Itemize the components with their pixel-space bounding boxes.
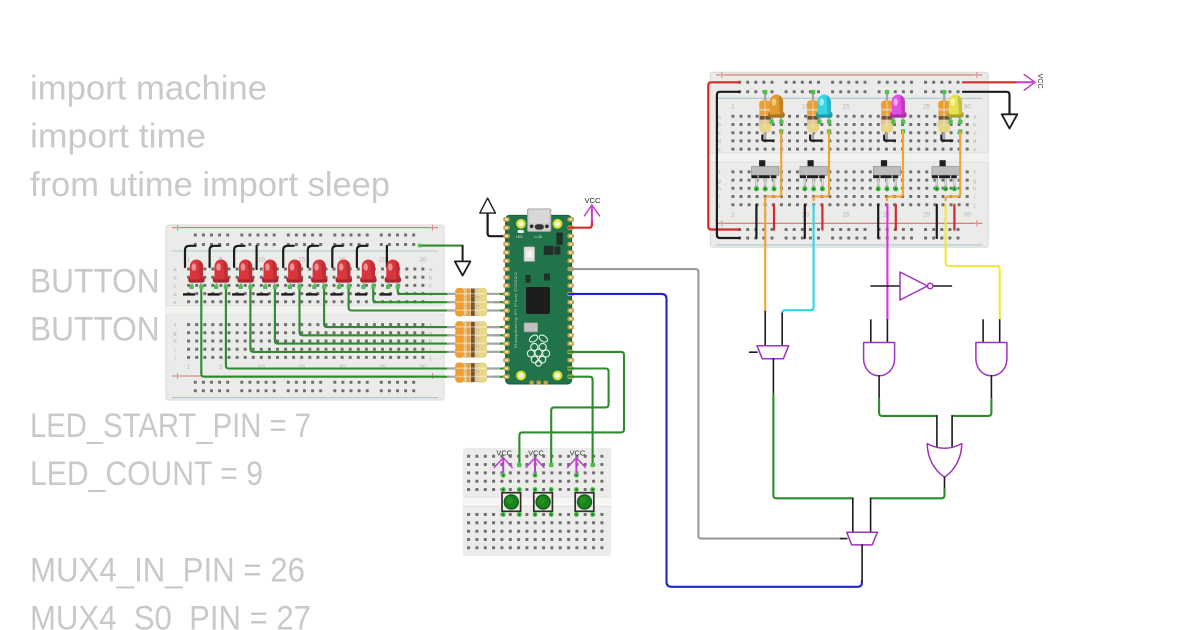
svg-text:c: c	[718, 131, 721, 137]
svg-text:b: b	[718, 123, 721, 129]
svg-text:u-48: u-48	[535, 235, 542, 239]
svg-text:BUTTON: BUTTON	[30, 262, 160, 300]
svg-text:MUX4_S0_PIN = 27: MUX4_S0_PIN = 27	[30, 600, 311, 630]
svg-text:g: g	[973, 178, 976, 184]
svg-text:i: i	[174, 347, 175, 353]
svg-text:10: 10	[258, 256, 266, 263]
svg-text:b: b	[173, 275, 176, 281]
svg-text:j: j	[173, 356, 175, 362]
svg-text:j: j	[973, 203, 975, 209]
svg-text:VCC: VCC	[584, 196, 601, 205]
svg-text:30: 30	[964, 104, 972, 111]
svg-text:h: h	[173, 339, 176, 345]
svg-text:BUTTON: BUTTON	[30, 311, 160, 349]
svg-text:VCC: VCC	[496, 449, 512, 458]
svg-text:d: d	[718, 139, 721, 145]
svg-text:c: c	[429, 284, 432, 290]
svg-text:import machine: import machine	[30, 70, 267, 108]
svg-text:g: g	[718, 178, 721, 184]
svg-text:import time: import time	[30, 118, 206, 156]
svg-text:5: 5	[219, 364, 223, 371]
svg-text:15: 15	[842, 211, 850, 218]
svg-text:i: i	[974, 195, 975, 201]
svg-text:1: 1	[187, 256, 191, 263]
svg-text:i: i	[719, 195, 720, 201]
svg-text:30: 30	[419, 256, 427, 263]
svg-text:Raspberry Pi Pico ©2022: Raspberry Pi Pico ©2022	[513, 271, 518, 348]
svg-text:1: 1	[187, 364, 191, 371]
svg-text:j: j	[429, 356, 431, 362]
svg-text:e: e	[718, 147, 721, 153]
svg-text:LED_COUNT = 9: LED_COUNT = 9	[30, 455, 263, 493]
svg-text:25: 25	[379, 256, 387, 263]
svg-text:25: 25	[923, 211, 931, 218]
svg-text:b: b	[973, 123, 976, 129]
svg-text:e: e	[973, 147, 976, 153]
svg-text:30: 30	[964, 211, 972, 218]
svg-text:VCC: VCC	[528, 449, 544, 458]
svg-text:1: 1	[731, 104, 735, 111]
svg-text:LED: LED	[516, 235, 523, 239]
svg-text:VCC: VCC	[570, 449, 586, 458]
svg-text:b: b	[429, 275, 432, 281]
svg-text:d: d	[173, 292, 176, 298]
svg-text:LED_START_PIN = 7: LED_START_PIN = 7	[30, 407, 311, 445]
svg-text:h: h	[718, 187, 721, 193]
svg-text:g: g	[173, 331, 176, 337]
svg-text:c: c	[973, 131, 976, 137]
svg-text:d: d	[973, 139, 976, 145]
svg-text:15: 15	[842, 104, 850, 111]
svg-text:from utime import sleep: from utime import sleep	[30, 166, 390, 204]
svg-text:VCC: VCC	[1036, 74, 1045, 89]
svg-text:MUX4_IN_PIN = 26: MUX4_IN_PIN = 26	[30, 552, 305, 590]
svg-text:1: 1	[731, 211, 735, 218]
svg-text:25: 25	[923, 104, 931, 111]
svg-text:e: e	[173, 300, 176, 306]
svg-text:h: h	[973, 187, 976, 193]
svg-text:c: c	[174, 284, 177, 290]
